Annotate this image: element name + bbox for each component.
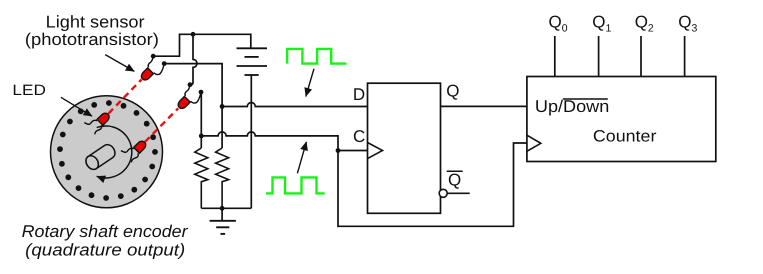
battery B1 [237,48,268,75]
node: ground junction [220,206,225,211]
resistor R2 [216,148,229,208]
rotary encoder disc [51,96,163,208]
ground [210,208,236,234]
node: rail junction [191,32,196,37]
svg-text:Q: Q [448,170,461,189]
svg-text:LED: LED [12,82,46,99]
counter U2 box [527,77,716,162]
wire: signal A - PT1 emitter right, down, D input, resistor R2 top branch [164,64,222,107]
U1 clock triangle [368,143,383,159]
arrow: waveform A to D wire [306,69,314,97]
node: signal A / D-wire / R2 junction [220,104,225,109]
resistor R1 [195,148,208,208]
arrow: waveform B to C wire [297,142,306,174]
wire: C node down, along bottom, up to counter clock [338,143,527,226]
svg-text:D: D [353,85,365,104]
arrow: light sensor label to PT1 [105,55,134,72]
LED D1 dashed beam [109,80,142,114]
wire: battery stem down to ground node [250,75,252,208]
node: signal B / R1 junction [199,134,204,139]
LED D2 [121,139,148,162]
wire: counter output stubs Q0-Q3 [555,36,685,77]
waveform A (green) [287,49,346,64]
U1 Qbar bubble [439,189,447,197]
phototransistor Q1 [140,54,167,82]
svg-text:Light sensor: Light sensor [46,13,145,32]
D flip-flop U1 box [368,83,441,213]
svg-text:C: C [353,127,365,146]
LED D1 [84,111,111,134]
phototransistor Q2 [176,82,203,110]
svg-text:Q: Q [446,82,459,101]
wire: PT1 collector to top rail to battery top [153,34,251,56]
wire: C input into flip-flop [338,150,368,152]
rotation arrow (arc) [97,126,132,178]
node: C input / counter clock branch junction [336,148,341,153]
svg-text:(phototransistor): (phototransistor) [25,30,159,49]
arrow: LED label to LED1 [61,97,92,116]
svg-text:(quadrature output): (quadrature output) [25,240,185,259]
svg-text:Counter: Counter [593,128,657,146]
LED D2 dashed beam [145,108,178,142]
wire: Q output to counter Up/Down [441,105,527,107]
wire: ground node [201,207,251,209]
wire: signal B - PT2 emitter down, right (hops over R2 wire and battery stem), C input [200,93,202,136]
U2 clock triangle [527,135,541,151]
wire: Qbar stub [447,192,470,194]
wire: rail junction down (hop over signal A) to PT2 collector [190,34,197,85]
disc hole dots [57,100,158,201]
shaft (cylinder) [83,142,117,172]
waveform B (green) [266,177,325,193]
svg-text:Rotary shaft encoder: Rotary shaft encoder [22,222,189,241]
